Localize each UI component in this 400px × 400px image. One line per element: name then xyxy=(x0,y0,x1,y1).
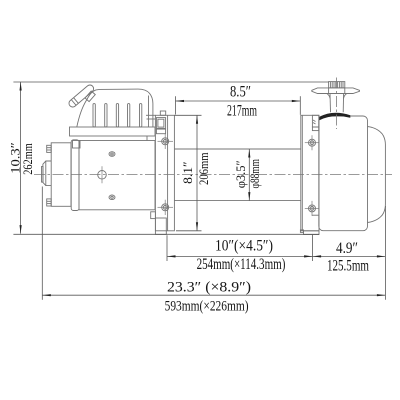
svg-text:φ3.5″: φ3.5″ xyxy=(234,160,248,188)
right plate step line xyxy=(312,214,319,216)
right tie rod box xyxy=(312,115,318,130)
motor cap bolt top xyxy=(47,145,52,152)
control box bracket lines xyxy=(146,115,155,119)
motor cap bolt bottom xyxy=(47,199,52,206)
right drum support plate xyxy=(301,115,319,231)
dim dia3.5in dia88mm xyxy=(234,149,262,201)
svg-text:125.5mm: 125.5mm xyxy=(327,258,369,275)
left plate top tab xyxy=(160,111,165,115)
right foot xyxy=(304,231,320,235)
control box inner wall line xyxy=(148,96,150,128)
svg-text:8.1″: 8.1″ xyxy=(181,161,195,184)
right plate inner edge xyxy=(301,115,303,231)
right foot tab xyxy=(300,230,303,233)
dim 8.1in 206mm xyxy=(174,115,210,231)
motor bolt top xyxy=(109,152,115,157)
left drum support plate xyxy=(155,115,174,231)
gearbox housing xyxy=(319,116,368,231)
left plate bolt lower xyxy=(158,200,174,215)
gearbox end bump xyxy=(368,127,386,223)
left foot tab xyxy=(151,212,156,219)
clutch shaft xyxy=(327,94,347,113)
svg-text:8.5″: 8.5″ xyxy=(230,84,251,101)
cooling fins xyxy=(93,104,142,127)
clutch T-bar ticks xyxy=(329,88,345,94)
lever handle xyxy=(67,83,95,108)
clutch centerline xyxy=(336,78,338,130)
motor bolt bottom xyxy=(109,195,115,200)
motor terminal block xyxy=(73,141,81,149)
svg-text:593mm(×226mm): 593mm(×226mm) xyxy=(165,298,249,314)
clutch boot xyxy=(319,113,350,120)
right plate bolt upper xyxy=(305,135,320,150)
clutch T-bar xyxy=(312,88,360,94)
motor end cap xyxy=(51,143,71,207)
lever bracket xyxy=(85,91,95,102)
control box base xyxy=(70,127,156,141)
left plate inner edge xyxy=(167,115,169,231)
left foot xyxy=(155,218,166,234)
svg-text:217mm: 217mm xyxy=(227,102,257,119)
svg-text:10″(×4.5″): 10″(×4.5″) xyxy=(215,237,273,254)
svg-text:206mm: 206mm xyxy=(197,152,211,185)
svg-text:262mm: 262mm xyxy=(21,143,35,175)
clutch handle knob xyxy=(329,82,345,88)
dim 4.9in 125.5mm xyxy=(313,240,386,275)
dim 10.3in 262mm xyxy=(8,82,328,234)
dim 23.3in 593mm xyxy=(42,187,385,315)
svg-text:φ88mm: φ88mm xyxy=(248,159,262,188)
control box dome xyxy=(77,89,153,127)
motor end bell ring xyxy=(71,140,79,211)
dim 8.5in 217mm xyxy=(176,84,301,120)
left plate bolt upper xyxy=(158,134,174,149)
left tie rod box xyxy=(156,118,165,134)
centerline main horizontal xyxy=(34,174,392,176)
right plate bolt lower xyxy=(305,201,320,216)
svg-text:254mm(×114.3mm): 254mm(×114.3mm) xyxy=(197,256,286,273)
drum bottom line xyxy=(174,200,300,202)
motor body xyxy=(79,141,155,210)
motor boss center mark xyxy=(101,166,103,183)
dim 10in 254mm xyxy=(167,235,313,273)
motor terminal connector xyxy=(42,161,52,186)
svg-text:4.9″: 4.9″ xyxy=(336,240,358,257)
drum top line xyxy=(174,148,300,150)
svg-text:23.3″ (×8.9″): 23.3″ (×8.9″) xyxy=(167,280,251,296)
motor boss xyxy=(98,171,107,180)
